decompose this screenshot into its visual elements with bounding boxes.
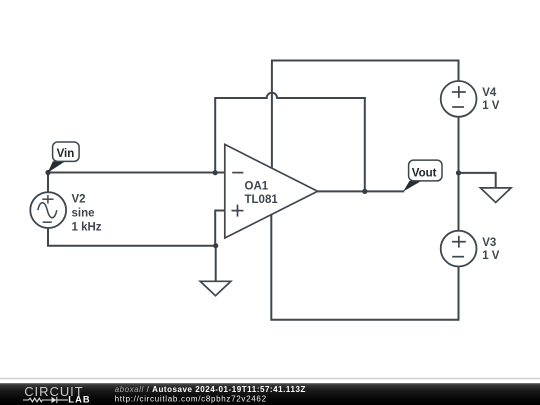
wire V3 bottom rail to op-amp V- pin [271, 213, 458, 320]
svg-text:OA1: OA1 [245, 180, 269, 192]
ground (right) [480, 188, 511, 203]
node flag Vin [48, 142, 79, 173]
wire feedback vertical up [364, 98, 366, 191]
ground (left) [200, 281, 231, 295]
node junction dot feedback/inverting input [213, 170, 218, 175]
voltage source V2 (sine) [30, 192, 66, 228]
wire V2 bottom to ground rail [48, 228, 216, 246]
op-amp OA1 [225, 144, 318, 238]
footer bar [0, 383, 540, 405]
svg-text:V4: V4 [482, 87, 497, 99]
node junction dot ground rail [213, 243, 218, 248]
op-amp plus input mark [232, 205, 244, 217]
separator rule above footer [0, 378, 540, 380]
label V4 value [482, 87, 500, 112]
svg-text:aboxall / Autosave 2024-01-19T: aboxall / Autosave 2024-01-19T11:57:41.1… [115, 385, 306, 394]
node junction dot right rail [456, 170, 461, 175]
op-amp minus input mark [232, 172, 243, 174]
wire output [318, 190, 404, 192]
svg-text:http://circuitlab.com/c8pbhz72: http://circuitlab.com/c8pbhz72v2462 [115, 395, 267, 404]
svg-text:V3: V3 [482, 237, 496, 249]
node junction dot output [362, 189, 367, 194]
svg-text:V2: V2 [72, 194, 86, 206]
wire Vin to V2 top [47, 173, 49, 193]
svg-text:Vout: Vout [412, 167, 437, 179]
svg-text:LAB: LAB [68, 394, 90, 404]
wire left ground stem [215, 246, 217, 282]
wire inverting input from Vin [48, 172, 225, 174]
label V3 value [482, 237, 500, 262]
wire V4 to junction [458, 117, 460, 173]
label OA1 TL081 [245, 180, 279, 206]
svg-text:Vin: Vin [57, 148, 75, 160]
node junction dot at Vin [45, 170, 50, 175]
voltage source V4 [441, 81, 477, 117]
svg-text:1 V: 1 V [482, 250, 500, 262]
svg-text:TL081: TL081 [245, 194, 279, 206]
node flag Vout [403, 160, 442, 191]
wire junction to right ground [459, 173, 496, 188]
svg-text:1 V: 1 V [482, 100, 500, 112]
svg-text:sine: sine [72, 208, 95, 220]
wire top rail [272, 61, 459, 170]
wire non-inverting input [215, 211, 225, 246]
logo resistor-diode glyph [23, 397, 68, 403]
svg-text:1 kHz: 1 kHz [72, 222, 102, 234]
voltage source V3 [441, 231, 477, 267]
wire junction to V3 [458, 173, 460, 231]
wire feedback horizontal with hop [215, 93, 365, 173]
label V2 value [72, 194, 102, 234]
